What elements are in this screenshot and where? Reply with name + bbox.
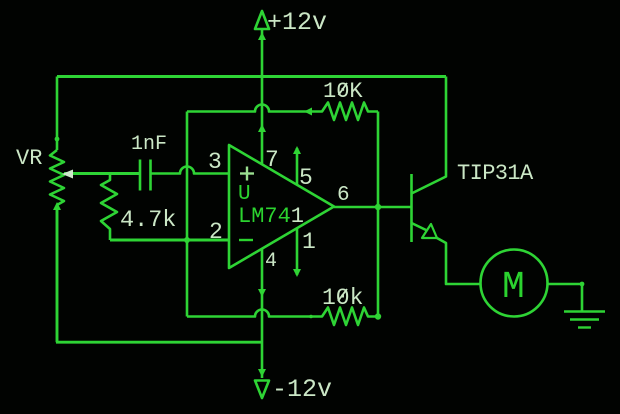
- svg-text:-12v: -12v: [272, 375, 332, 404]
- svg-text:U: U: [238, 183, 251, 206]
- svg-text:+12v: +12v: [267, 8, 327, 37]
- svg-text:4: 4: [265, 250, 277, 273]
- svg-text:10k: 10k: [322, 285, 363, 311]
- svg-text:2: 2: [209, 219, 223, 245]
- svg-text:4.7k: 4.7k: [120, 207, 176, 234]
- svg-text:7: 7: [265, 147, 279, 173]
- svg-text:10K: 10K: [323, 79, 363, 104]
- svg-text:LM74: LM74: [238, 204, 291, 229]
- svg-text:VR: VR: [16, 146, 42, 171]
- svg-text:1: 1: [291, 204, 304, 229]
- svg-text:TIP31A: TIP31A: [457, 161, 534, 186]
- svg-text:1nF: 1nF: [131, 133, 167, 156]
- svg-text:3: 3: [208, 149, 222, 175]
- svg-text:M: M: [502, 266, 525, 309]
- svg-text:1: 1: [302, 229, 316, 255]
- svg-text:6: 6: [337, 184, 350, 207]
- svg-text:5: 5: [299, 165, 313, 191]
